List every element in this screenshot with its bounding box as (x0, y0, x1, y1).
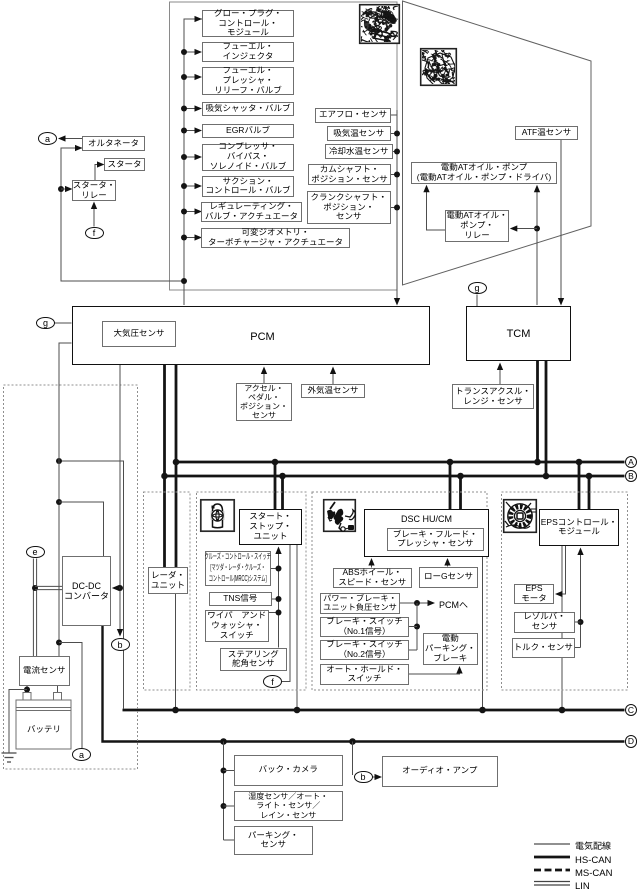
alternator box (82, 136, 145, 151)
LIN double wire from connector e (33, 559, 36, 657)
bus connector D (625, 735, 637, 747)
wire connector g to TCM (476, 295, 478, 307)
wire branch to actuator box 9 (181, 234, 202, 240)
PCM label (240, 328, 285, 344)
EPS motor box (514, 584, 554, 604)
connector a to alternator (38, 132, 57, 145)
wire outside air temp sensor to PCM (330, 367, 336, 385)
starter relay box (72, 180, 116, 201)
engine icon upper (356, 0, 402, 55)
collector wire sensors to EPS module (575, 548, 584, 648)
legend electrical wiring line (534, 843, 570, 845)
compressor bypass solenoid valve box (202, 144, 294, 171)
cruise control switch box (205, 551, 271, 586)
connector b below DC-DC (111, 638, 130, 651)
outside air temp sensor box (301, 384, 365, 398)
starter box (104, 158, 145, 171)
dashed zone EPS (502, 492, 628, 690)
TCM transmission control module (466, 306, 571, 361)
humidity auto-light rain sensor box (234, 791, 343, 821)
push start icon (car top view) (201, 500, 234, 531)
bus connector B (625, 470, 637, 482)
suction control valve box (202, 176, 294, 197)
ATF temp sensor box (515, 126, 578, 140)
stub back camera (221, 768, 235, 774)
wire branch to actuator box 4 (181, 105, 202, 111)
resolver sensor box (514, 612, 575, 633)
wire connector b to audio amp (373, 774, 383, 780)
auto hold switch box (320, 664, 409, 686)
wire transaxle range sensor to TCM (497, 363, 503, 385)
connector g to TCM (468, 282, 487, 295)
wiper and washer switch box (205, 610, 270, 642)
wire branch to actuator box 5 (181, 127, 202, 133)
DSC HU/CM label (364, 512, 489, 525)
to-PCM label (439, 598, 479, 611)
PCM powertrain control module (72, 306, 431, 366)
wire start-stop unit to connector f (282, 545, 290, 682)
HS-CAN wire bus B to EPS module (586, 473, 593, 509)
wire branch to actuator box 8 (181, 208, 202, 214)
dashed zone DSC (312, 492, 487, 690)
junction bus B at PCM line (161, 473, 168, 480)
wire battery to chassis ground (9, 690, 27, 754)
wire sensor stub 4 (391, 172, 400, 178)
stub wiper switch (269, 610, 282, 616)
brake hydraulics icon (324, 500, 356, 532)
wire sensor stub 1 (391, 114, 397, 116)
HS-CAN wire bus B to start-stop unit (279, 473, 286, 509)
crankshaft position sensor box (307, 191, 392, 224)
transaxle range sensor box (452, 384, 534, 409)
legend LIN line (534, 882, 570, 886)
wire EPS module to EPS motor (555, 546, 566, 597)
steering angle sensor box (220, 648, 287, 672)
LIN double wire branch to DC-DC (32, 585, 62, 591)
ABS wheel speed sensor box (333, 568, 412, 589)
EPS control module box (539, 509, 619, 547)
HS-CAN wire bus A to EPS module (576, 459, 583, 509)
power brake unit vacuum sensor box (320, 593, 400, 614)
wire PCM feed to DC-DC and current sensor (59, 343, 72, 656)
sensor collector wire to PCM (394, 110, 400, 306)
wire pump driver to TCM (510, 185, 540, 305)
wire sensor stub 2 (391, 131, 400, 137)
connector f to starter relay (85, 227, 104, 240)
electric AT oil pump driver box (411, 162, 557, 184)
variable geometry turbocharger actuator box (201, 228, 350, 249)
wire connector g to PCM (55, 322, 72, 324)
wire branch to actuator box 2 (181, 49, 202, 55)
stub humidity sensor (221, 803, 235, 809)
HS-CAN wire bus A to start-stop unit (272, 459, 279, 509)
wire current sensor to battery negative (57, 686, 59, 693)
electric parking brake box (423, 633, 479, 666)
wire bus D to connector b audio (349, 738, 356, 775)
audio amp box (382, 756, 499, 787)
fuel injector box (202, 42, 294, 62)
dashed zone battery/DC-DC (4, 385, 138, 769)
stub parking sensor (224, 839, 235, 841)
wire branch to actuator box 3 (181, 74, 202, 80)
dashed zone radar unit (144, 492, 191, 690)
EPS clutch plate icon (504, 500, 537, 533)
glow plug control module box (202, 10, 294, 37)
connector a from battery feed (72, 748, 91, 761)
brake switch No.1 box (320, 617, 409, 637)
connector f at steering sensor (263, 675, 282, 688)
accelerator pedal position sensor box (236, 383, 292, 421)
DSC HU/CM box (364, 509, 489, 557)
wire sensor stub 5 (391, 205, 400, 211)
wire branch to actuator box 7 (181, 183, 202, 189)
legend MS-CAN line (534, 869, 570, 872)
regulating valve actuator box (201, 202, 302, 223)
wire start-stop unit to bus C (294, 545, 301, 713)
wire branch to connector a (56, 640, 82, 749)
wire branch to actuator box 6 (181, 154, 202, 160)
wire auto hold to parking brake (409, 666, 463, 674)
wire DSC to bus C (479, 557, 486, 714)
intake air temp sensor box (327, 126, 392, 141)
start-stop unit box (239, 509, 302, 546)
legend HS-CAN line (534, 856, 570, 859)
current sensor box (19, 656, 71, 686)
wire radar unit to bus C (172, 594, 179, 713)
wire relay to pump driver (423, 185, 445, 230)
stub cruise switch (271, 566, 282, 572)
DC-DC converter box (62, 556, 111, 626)
torque sensor box (512, 638, 576, 658)
battery body (16, 700, 71, 749)
junction and arrow into starter relay (58, 186, 73, 192)
wire bus D to camera branch (220, 738, 227, 840)
wire relay to starter (95, 161, 105, 180)
wire main feed to alternator (61, 145, 187, 284)
ground symbol (2, 753, 17, 762)
EGR valve box (202, 124, 294, 139)
TNS signal box (209, 592, 272, 607)
collector wire switches to start-stop unit (275, 547, 281, 648)
wire EPS module to bus C (559, 546, 566, 713)
HS-CAN wire bus B to DSC (457, 473, 464, 509)
wire low G sensor to DSC (444, 558, 450, 567)
actuator supply bus from PCM (184, 19, 202, 305)
brake switch No.2 box (320, 640, 409, 660)
connector g to PCM (36, 317, 55, 330)
HS-CAN wire PCM right to bus A and radar unit (175, 365, 178, 567)
connector b to audio amp (354, 771, 373, 784)
wire ABS sensor to DSC (368, 558, 374, 568)
HS-CAN bus C (123, 709, 625, 712)
dashed zone start-stop unit (197, 492, 307, 690)
HS-CAN wire PCM left to bus B and radar unit (163, 365, 166, 567)
battery label (20, 723, 68, 735)
airflow sensor box (315, 108, 391, 123)
intake shutter valve box (202, 102, 294, 117)
HS-CAN wire bus A to DSC (447, 459, 454, 509)
connector e LIN (26, 546, 45, 559)
barometric pressure sensor box (102, 321, 176, 347)
camshaft position sensor box (308, 164, 391, 185)
wire current sensor to battery positive (24, 686, 30, 693)
wire feed to bus C (56, 458, 124, 709)
back camera box (234, 755, 343, 786)
radar unit box (148, 567, 188, 594)
wire branch to actuator box 1 (184, 16, 202, 22)
wire alternator to connector a (58, 135, 82, 141)
bus connector C (625, 704, 637, 716)
wire vacuum sensor and brake switches to PCM (400, 600, 435, 650)
brake fluid pressure sensor box (387, 528, 485, 552)
electric AT oil pump relay box (445, 210, 509, 242)
wire connector f to relay (91, 202, 97, 227)
engine compartment frame (170, 2, 398, 290)
wire branch to DC-DC converter top (56, 499, 104, 556)
low G sensor box (419, 567, 478, 588)
parking sensor box (234, 826, 313, 855)
wire sensor stub 3 (393, 149, 401, 155)
legend labels (575, 839, 611, 852)
stub TNS (272, 596, 282, 602)
junction bus A at PCM line (173, 459, 180, 466)
battery terminals (23, 693, 62, 701)
HS-CAN wire TCM left to bus A (534, 361, 541, 465)
wire accel sensor to PCM (261, 367, 267, 384)
engine side panel perspective outline (403, 1, 592, 285)
wire DC-DC converter to bus D (103, 626, 625, 742)
fuel pressure relief valve box (202, 67, 294, 95)
engine icon lower (416, 41, 466, 89)
coolant temp sensor box (325, 144, 393, 159)
HS-CAN bus B (165, 475, 625, 478)
HS-CAN wire TCM right to bus B (543, 361, 550, 479)
HS-CAN bus A (176, 461, 625, 464)
wire ATF sensor to TCM (558, 140, 564, 306)
wire PCM to connector b (112, 365, 123, 637)
bus connector A (625, 456, 637, 468)
